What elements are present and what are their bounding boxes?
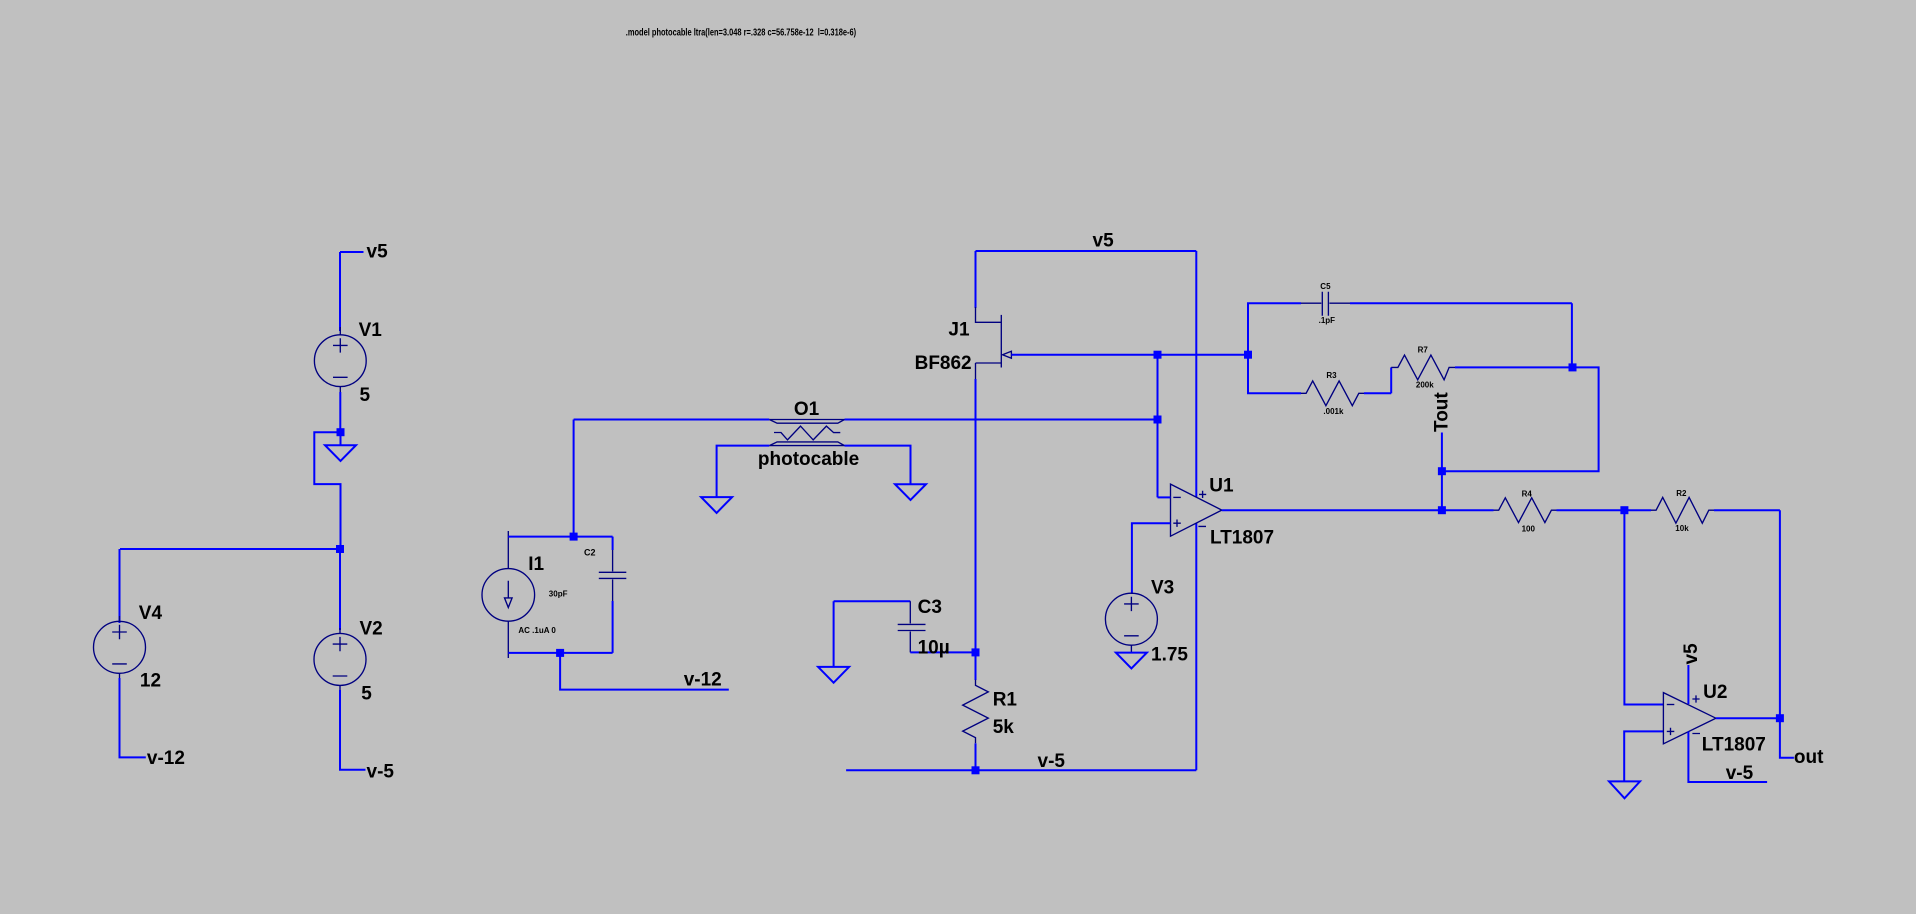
voltage source V3 xyxy=(1105,593,1157,652)
wire Tout label stub xyxy=(1441,433,1443,472)
junction V1 bottom xyxy=(337,428,345,436)
ground (C3) xyxy=(818,667,849,683)
svg-text:v-12: v-12 xyxy=(684,669,722,690)
svg-text:V2: V2 xyxy=(360,619,383,640)
resistor R1 xyxy=(963,652,989,770)
wire U1 output xyxy=(1222,509,1442,511)
resistor R2 xyxy=(1624,497,1780,523)
svg-text:10µ: 10µ xyxy=(918,638,950,659)
junction V2 top node xyxy=(336,545,344,553)
wire horizontal to V4 xyxy=(120,548,340,550)
svg-text:out: out xyxy=(1794,747,1824,768)
svg-text:R1: R1 xyxy=(993,690,1018,711)
svg-text:v-5: v-5 xyxy=(1038,751,1066,772)
voltage source V4 xyxy=(94,616,146,680)
wire photocable bottom-right to ground xyxy=(845,446,911,485)
svg-text:V4: V4 xyxy=(139,603,163,624)
svg-text:12: 12 xyxy=(140,671,161,692)
op-amp U2 LT1807 xyxy=(1663,693,1716,744)
op-amp U1 LT1807 xyxy=(1171,484,1222,536)
wire junction down to V2 top xyxy=(339,549,341,630)
svg-text:R3: R3 xyxy=(1326,371,1337,380)
wire v5 down to U1 V+ xyxy=(1195,251,1197,497)
junction I1 bottom xyxy=(556,649,564,657)
svg-text:O1: O1 xyxy=(794,399,820,420)
svg-text:30pF: 30pF xyxy=(549,590,568,599)
wire out label stub xyxy=(1780,718,1794,758)
wire -in to U1 xyxy=(1158,496,1171,498)
svg-text:1.75: 1.75 xyxy=(1151,644,1188,665)
junction gate/inverting node xyxy=(1154,351,1162,359)
ground (photocable left) xyxy=(701,497,732,513)
junction U1 output node xyxy=(1438,506,1446,514)
junction R1/v-5 rail xyxy=(972,766,980,774)
svg-text:200k: 200k xyxy=(1416,380,1434,389)
svg-text:V1: V1 xyxy=(359,320,383,341)
wire U2 +in to ground xyxy=(1624,731,1663,781)
svg-text:10k: 10k xyxy=(1675,524,1689,533)
wire R2 right down to U2 output xyxy=(1779,510,1781,718)
svg-text:v-5: v-5 xyxy=(1726,763,1754,784)
wire J1 gate to feedback node xyxy=(1011,354,1248,356)
svg-text:5: 5 xyxy=(360,385,371,406)
svg-text:U2: U2 xyxy=(1703,682,1727,703)
svg-text:5: 5 xyxy=(361,684,372,705)
svg-text:I1: I1 xyxy=(528,554,544,575)
capacitor C5 xyxy=(1301,292,1572,316)
svg-text:v-12: v-12 xyxy=(147,748,185,769)
svg-text:C3: C3 xyxy=(918,597,942,618)
ground (V3) xyxy=(1116,653,1147,669)
wire C5 right down to R7 node xyxy=(1571,303,1573,367)
current source I1 xyxy=(482,531,535,658)
svg-text:C5: C5 xyxy=(1320,282,1331,291)
svg-text:LT1807: LT1807 xyxy=(1702,734,1766,755)
ground (below V1) xyxy=(325,445,356,461)
wire v5 label to U2 V+ xyxy=(1687,665,1689,704)
wire Tout node to output row xyxy=(1441,471,1443,510)
wire feedback node up and right to C5 xyxy=(1248,303,1301,355)
wire -in node down to U2 xyxy=(1624,510,1663,704)
svg-text:R7: R7 xyxy=(1418,345,1429,354)
svg-text:V3: V3 xyxy=(1151,577,1174,598)
wire V4 bottom to v-12 stub xyxy=(120,678,146,757)
wire photocable bottom-left to ground xyxy=(717,446,770,498)
svg-text:C2: C2 xyxy=(584,548,596,558)
junction photocable/-in node xyxy=(1154,416,1162,424)
transmission line O1 symbol xyxy=(769,420,844,446)
junction R4/R2/U2 -in node xyxy=(1620,506,1628,514)
wire gate node down to U1 -in xyxy=(1157,355,1159,498)
junction Tout node xyxy=(1438,467,1446,475)
svg-text:v5: v5 xyxy=(1681,643,1702,665)
junction I1 top xyxy=(570,533,578,541)
svg-text:R2: R2 xyxy=(1676,489,1687,498)
svg-text:R4: R4 xyxy=(1522,489,1533,498)
svg-text:v-5: v-5 xyxy=(367,761,395,782)
junction gate/feedback node xyxy=(1244,351,1252,359)
svg-text:100: 100 xyxy=(1522,524,1536,533)
wire C3 left to ground xyxy=(833,601,835,667)
wire to v-12 label (middle) xyxy=(560,653,729,690)
node v5 (left) wire stub xyxy=(340,252,364,331)
svg-text:.1pF: .1pF xyxy=(1319,316,1336,325)
svg-text:AC .1uA 0: AC .1uA 0 xyxy=(518,626,556,635)
voltage source V2 xyxy=(314,628,366,691)
ground (photocable right) xyxy=(895,484,926,500)
capacitor C2 xyxy=(599,537,627,653)
wire I1/C2 bottom xyxy=(508,652,612,654)
wire +in to V3 xyxy=(1132,523,1171,594)
svg-text:U1: U1 xyxy=(1209,475,1234,496)
wire U2 V- to v-5 xyxy=(1688,732,1767,783)
wire U1 V- down to v-5 rail xyxy=(1195,523,1197,770)
wire v5 rail top xyxy=(976,250,1197,252)
capacitor C3 xyxy=(834,601,976,652)
wire feedback to Tout node xyxy=(1442,367,1599,471)
svg-text:Tout: Tout xyxy=(1432,392,1453,432)
wire v5 to J1 drain xyxy=(975,251,977,308)
svg-text:photocable: photocable xyxy=(758,449,859,470)
wire junction to ground xyxy=(340,432,342,445)
junction C5/R7 node xyxy=(1569,363,1577,371)
svg-text:5k: 5k xyxy=(993,717,1015,738)
wire down to V4 xyxy=(119,549,121,623)
wire photocable top-right to gate node xyxy=(845,419,1158,421)
wire I1/C2 top xyxy=(508,536,612,538)
wire U2 output xyxy=(1716,717,1780,719)
voltage source V1 xyxy=(314,327,366,394)
ground (U2 +in) xyxy=(1609,781,1640,798)
junction U2 output node xyxy=(1776,714,1784,722)
svg-text:.model photocable ltra(len=3.0: .model photocable ltra(len=3.048 r=.328 … xyxy=(626,26,856,37)
wire bypass around ground (junction to V2 top) xyxy=(314,432,340,549)
resistor R7 xyxy=(1391,355,1572,380)
svg-text:v5: v5 xyxy=(367,242,389,263)
junction J1 source node xyxy=(972,648,980,656)
wire V2 bottom to v-5 stub xyxy=(340,690,366,770)
wire photocable top-left xyxy=(574,419,770,421)
JFET J1 BF862 xyxy=(976,307,1012,379)
svg-text:J1: J1 xyxy=(948,319,970,340)
resistor R4 xyxy=(1442,498,1625,523)
wire V1 bottom to junction xyxy=(339,392,341,432)
wire R3 to R7 xyxy=(1390,367,1392,393)
wire feedback node down to R3 xyxy=(1248,355,1301,394)
resistor R3 xyxy=(1301,381,1391,406)
wire riser to photocable net xyxy=(573,420,575,537)
wire J1 source down to C3/R1 node xyxy=(975,379,977,652)
svg-text:LT1807: LT1807 xyxy=(1210,527,1274,548)
svg-text:.001k: .001k xyxy=(1323,407,1344,416)
svg-text:v5: v5 xyxy=(1093,231,1115,252)
svg-text:BF862: BF862 xyxy=(915,353,972,374)
wire v-5 rail bottom xyxy=(846,769,1196,771)
